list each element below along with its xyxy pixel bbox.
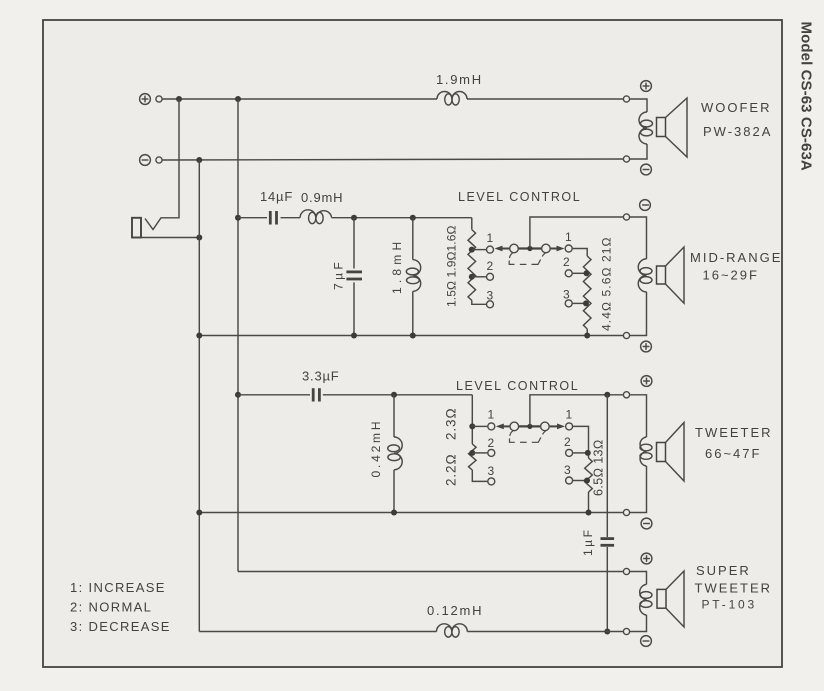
node: rail/C3 xyxy=(351,333,357,339)
mid magnet xyxy=(657,266,666,284)
woofer magnet xyxy=(657,118,666,137)
resistor R1 1.5/1.9/1.6 ohm chain xyxy=(468,230,476,301)
mid right tap2 contact circle xyxy=(565,270,572,277)
svg-text:16~29F: 16~29F xyxy=(703,268,759,283)
tweeter magnet xyxy=(657,443,666,462)
svg-text:1: 1 xyxy=(566,408,573,422)
svg-text:7µF: 7µF xyxy=(332,259,346,290)
node: C3 top junction xyxy=(351,215,357,221)
resistor R3 2.2/2.3 ohm chain xyxy=(469,444,477,470)
svg-text:14µF: 14µF xyxy=(260,189,293,204)
input plus terminal circle xyxy=(156,96,162,102)
capacitor C3 7uF xyxy=(346,272,362,279)
woofer minus terminal circle xyxy=(623,156,629,162)
woofer voice coil xyxy=(639,112,653,144)
mid tap1 contact circle xyxy=(487,246,494,253)
svg-text:66~47F: 66~47F xyxy=(705,446,761,461)
woofer cone xyxy=(666,98,688,157)
svg-text:3: 3 xyxy=(564,463,571,477)
svg-text:1.8mH: 1.8mH xyxy=(390,238,404,294)
wire: C3 branch top xyxy=(353,218,355,269)
tw right tap3 contact circle xyxy=(566,477,573,484)
mid plus terminal circle xyxy=(623,332,629,338)
svg-text:PT-103: PT-103 xyxy=(702,598,758,612)
inductor L4 0.42mH xyxy=(388,437,403,470)
mid voice coil xyxy=(638,259,652,292)
arrow: link to right tap xyxy=(550,424,566,430)
svg-text:LEVEL CONTROL: LEVEL CONTROL xyxy=(458,190,581,204)
dashed link alternate position xyxy=(509,253,545,265)
wire: super voice-coil link bottom xyxy=(630,615,647,632)
tw tap2 contact circle xyxy=(488,449,495,456)
tweeter plus terminal circle xyxy=(623,392,629,398)
node: sleeve junction xyxy=(196,235,202,241)
wire: L3 branch top xyxy=(412,218,414,260)
svg-text:1: 1 xyxy=(488,408,495,422)
node: tw tap1 junction xyxy=(469,423,475,429)
svg-text:3: 3 xyxy=(563,288,570,302)
wire: mid feed to C2 xyxy=(238,217,267,219)
wire: mid left chain top corner xyxy=(471,218,473,230)
inductor L3 1.8mH xyxy=(406,260,420,292)
svg-text:0.9mH: 0.9mH xyxy=(301,190,343,205)
wire: tap3 stub xyxy=(573,302,588,304)
svg-text:Model CS-63 CS-63A: Model CS-63 CS-63A xyxy=(798,22,815,171)
capacitor C2 14uF xyxy=(270,211,276,225)
tw tap3 contact circle xyxy=(488,478,495,485)
wire: tweeter voice-coil link top xyxy=(630,395,647,437)
svg-text:2: NORMAL: 2: NORMAL xyxy=(70,600,152,615)
node: mid tap2 junction xyxy=(469,274,475,280)
node: rail/R4 xyxy=(586,510,592,516)
tweeter minus symbol xyxy=(641,518,652,529)
super voice coil xyxy=(640,584,652,615)
wire: C5 to super minus rail xyxy=(606,547,608,632)
super plus terminal circle xyxy=(623,568,629,574)
wire: L2 to mid attenuator xyxy=(332,217,472,219)
svg-text:2: 2 xyxy=(488,436,495,450)
svg-text:PW-382A: PW-382A xyxy=(703,124,772,139)
wire: woofer voice-coil link bottom xyxy=(630,144,647,159)
wire: tap2 stub xyxy=(573,452,589,454)
svg-text:3: 3 xyxy=(487,289,494,303)
wire: L3 branch bottom xyxy=(412,291,414,335)
wire: L4 branch bottom xyxy=(393,470,395,513)
svg-text:1µF: 1µF xyxy=(581,528,595,556)
svg-text:1: INCREASE: 1: INCREASE xyxy=(70,580,166,595)
input minus symbol xyxy=(140,155,151,166)
mid plus symbol xyxy=(641,341,652,352)
wire: right chain tail xyxy=(586,329,588,336)
capacitor C5 1uF xyxy=(601,539,615,546)
svg-text:1: 1 xyxy=(487,231,494,245)
wire: mid left chain tail to tap3 xyxy=(472,300,486,304)
svg-text:2.3Ω: 2.3Ω xyxy=(444,408,459,440)
wire: C5 column xyxy=(606,395,608,537)
wire: tweeter left chain top xyxy=(471,395,473,444)
svg-text:2: 2 xyxy=(563,255,570,269)
dashed link alternate position xyxy=(510,431,546,443)
wire: tweeter link bar xyxy=(514,425,545,427)
node: tap2 junction xyxy=(584,270,590,276)
capacitor C4 3.3uF xyxy=(313,388,319,401)
wire: tweeter left chain tail to tap3 xyxy=(472,470,487,481)
tweeter link left circle xyxy=(510,422,519,431)
mid right tap1 contact circle xyxy=(565,245,572,252)
svg-text:LEVEL CONTROL: LEVEL CONTROL xyxy=(456,379,579,393)
node: rail/R2 xyxy=(584,333,590,339)
mid minus symbol xyxy=(640,200,651,211)
wire: mid bottom rail xyxy=(199,335,623,337)
node: tap3 junction xyxy=(583,300,589,306)
svg-text:0.42mH: 0.42mH xyxy=(369,419,383,478)
wire: plus feed column xyxy=(237,99,239,572)
wire: super voice-coil link top xyxy=(630,572,647,585)
svg-text:WOOFER: WOOFER xyxy=(701,100,772,115)
input minus terminal circle xyxy=(156,157,162,163)
node: C5/super minus rail junction xyxy=(604,629,610,635)
arrow: link to left tap xyxy=(495,246,510,252)
wire: tweeter feed to C4 xyxy=(238,394,310,396)
wire: tap1 stub xyxy=(472,249,486,251)
arrow: link to right tap xyxy=(551,246,565,252)
node: tweeter link center junction xyxy=(527,424,532,429)
tweeter minus terminal circle xyxy=(623,509,629,515)
arrow: link to left tap xyxy=(496,424,510,430)
mid tap3 contact circle xyxy=(487,301,494,308)
node: L3 top junction xyxy=(410,215,416,221)
node: mid tap1 junction xyxy=(469,247,475,253)
wire: tw right chain top corner xyxy=(573,426,589,458)
woofer plus symbol xyxy=(641,81,652,92)
super minus terminal circle xyxy=(623,628,629,634)
resistor R2 4.4/5.6/21 ohm chain xyxy=(583,256,591,329)
mid right tap3 contact circle xyxy=(565,300,572,307)
mid link left circle xyxy=(510,244,519,253)
woofer plus terminal circle xyxy=(623,96,629,102)
super minus symbol xyxy=(641,636,652,647)
wire: tap2 stub xyxy=(472,452,487,454)
wire: right chain top corner xyxy=(573,249,588,257)
svg-text:2: 2 xyxy=(564,435,571,449)
inductor L5 0.12mH xyxy=(437,624,468,637)
wire: C3 branch bottom xyxy=(353,282,355,335)
wire: tweeter bottom rail xyxy=(199,512,623,514)
mid link right circle xyxy=(542,244,551,253)
resistor R4 6.5/13 ohm chain xyxy=(585,458,593,492)
node: mid feed junction xyxy=(235,215,241,221)
wire: minus column xyxy=(198,160,200,632)
mid minus terminal circle xyxy=(623,214,629,220)
node: tap3 junction xyxy=(584,478,590,484)
input plus symbol xyxy=(140,94,151,105)
tweeter voice coil xyxy=(640,437,652,466)
tweeter plus symbol xyxy=(641,376,652,387)
wire: super tweeter plus feed xyxy=(238,571,623,573)
mid cone xyxy=(666,247,685,303)
wire: tweeter output riser xyxy=(530,395,624,427)
svg-text:SUPER: SUPER xyxy=(696,563,751,578)
wire: C2 to L2 xyxy=(281,217,301,219)
node: mid link center junction xyxy=(527,246,532,251)
svg-text:3.3µF: 3.3µF xyxy=(302,369,340,384)
wire: woofer voice-coil link top xyxy=(630,99,647,112)
svg-text:1.5Ω 1.9Ω1.6Ω: 1.5Ω 1.9Ω1.6Ω xyxy=(445,225,459,307)
node: tap2 junction xyxy=(585,450,591,456)
wire: plus rail to woofer xyxy=(162,98,437,100)
wire: tap2 stub xyxy=(472,276,486,278)
node: tweeter plus / C5 junction xyxy=(604,392,610,398)
svg-text:1.9mH: 1.9mH xyxy=(436,72,483,87)
wire: super tweeter minus rail xyxy=(199,631,436,633)
node: rail/L3 xyxy=(410,333,416,339)
wire: tweeter voice-coil link bottom xyxy=(630,466,647,513)
svg-text:MID-RANGE: MID-RANGE xyxy=(690,250,782,265)
tw right tap2 contact circle xyxy=(566,449,573,456)
node: rail/L4 xyxy=(391,510,397,516)
tw tap1 contact circle xyxy=(488,423,495,430)
wire: tap3 stub xyxy=(573,480,589,482)
super cone xyxy=(666,571,684,627)
wire: mid link bar xyxy=(514,247,546,249)
svg-text:4.4Ω 5.6Ω 21Ω: 4.4Ω 5.6Ω 21Ω xyxy=(600,236,614,331)
wire: tap2 stub xyxy=(573,272,588,274)
woofer minus symbol xyxy=(641,164,652,175)
wire: plus rail after inductor xyxy=(467,98,623,100)
wire: jack sleeve to minus column xyxy=(132,237,199,239)
tweeter link right circle xyxy=(541,422,550,431)
node: L4 top junction xyxy=(391,392,397,398)
node: rail/minus column xyxy=(196,510,202,516)
wire: L5 to super tweeter xyxy=(467,631,623,633)
wire: mid voice-coil link bottom xyxy=(630,292,647,336)
node: rail/minus column xyxy=(196,333,202,339)
node: junction plus/jack-tip branch xyxy=(176,96,182,102)
super magnet xyxy=(657,589,666,608)
svg-text:0.12mH: 0.12mH xyxy=(427,603,483,618)
wire: mid voice-coil link top xyxy=(630,217,647,259)
wire: jack tip drop xyxy=(145,99,179,230)
node: junction plus/feed column xyxy=(235,96,241,102)
svg-text:2: 2 xyxy=(487,259,494,273)
node: tw tap2 junction xyxy=(469,450,475,456)
svg-text:1: 1 xyxy=(565,230,572,244)
inductor L1 1.9mH xyxy=(437,92,467,105)
wire: mid output riser xyxy=(530,217,624,249)
inductor L2 0.9mH xyxy=(300,210,332,224)
svg-text:TWEETER: TWEETER xyxy=(695,425,773,440)
wire: tap1 stub xyxy=(472,425,487,427)
tweeter cone xyxy=(666,423,685,482)
mid tap2 contact circle xyxy=(487,273,494,280)
wire: C4 to tweeter attenuator xyxy=(323,394,473,396)
wire: L4 branch top xyxy=(393,395,395,437)
node: tweeter feed junction xyxy=(235,392,241,398)
jack sleeve body xyxy=(132,218,141,238)
wire: minus rail to woofer xyxy=(162,159,623,160)
wire: tw right chain tail xyxy=(588,492,590,513)
svg-text:6.5Ω 13Ω: 6.5Ω 13Ω xyxy=(592,439,606,496)
tw right tap1 contact circle xyxy=(566,423,573,430)
svg-text:TWEETER: TWEETER xyxy=(695,581,773,596)
svg-text:3: DECREASE: 3: DECREASE xyxy=(70,619,171,634)
super plus symbol xyxy=(641,553,652,564)
svg-text:3: 3 xyxy=(488,464,495,478)
svg-text:2.2Ω: 2.2Ω xyxy=(444,454,459,486)
node: junction minus/ground column xyxy=(196,157,202,163)
